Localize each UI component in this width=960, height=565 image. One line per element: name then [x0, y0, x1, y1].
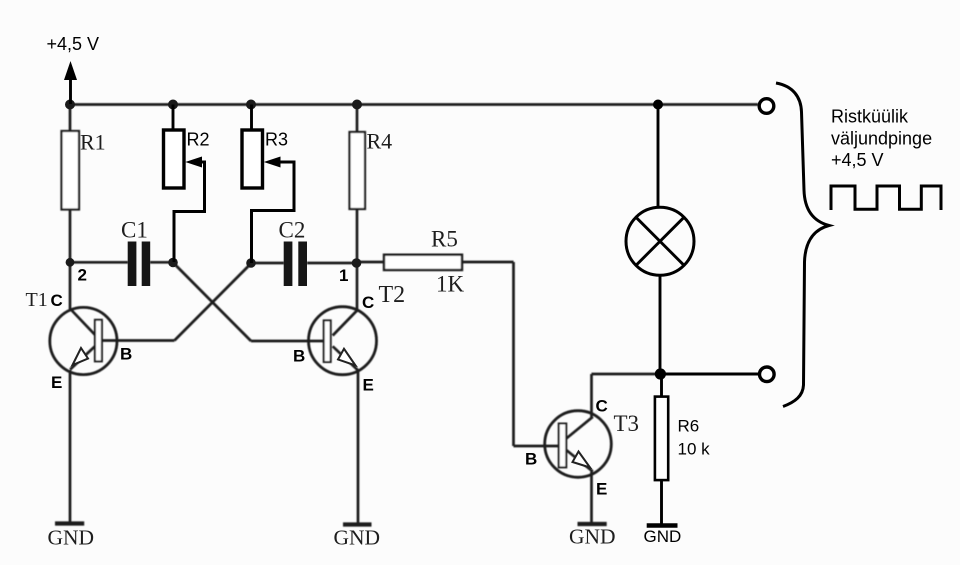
svg-text:R1: R1 [80, 130, 106, 155]
svg-text:C: C [51, 291, 63, 310]
svg-text:B: B [293, 347, 305, 366]
svg-text:E: E [51, 373, 62, 392]
svg-text:C: C [596, 397, 608, 416]
svg-text:B: B [525, 450, 537, 469]
svg-text:GND: GND [48, 526, 95, 550]
svg-text:E: E [596, 480, 607, 499]
svg-text:E: E [363, 376, 374, 395]
svg-text:10 k: 10 k [678, 440, 711, 459]
svg-text:T2: T2 [379, 282, 406, 308]
svg-text:+4,5 V: +4,5 V [47, 34, 100, 54]
svg-text:C: C [362, 293, 374, 312]
svg-text:GND: GND [334, 526, 381, 550]
svg-text:C1: C1 [121, 218, 148, 243]
svg-text:B: B [120, 345, 132, 364]
svg-text:R5: R5 [431, 227, 458, 252]
svg-text:+4,5 V: +4,5 V [831, 150, 884, 170]
svg-text:C2: C2 [279, 218, 306, 243]
svg-text:T1: T1 [26, 289, 48, 311]
svg-text:R2: R2 [187, 130, 210, 150]
svg-text:R3: R3 [265, 130, 288, 150]
svg-text:R4: R4 [367, 129, 393, 154]
svg-text:väljundpinge: väljundpinge [831, 129, 932, 149]
svg-text:T3: T3 [614, 411, 640, 436]
svg-text:GND: GND [569, 525, 616, 549]
svg-text:2: 2 [78, 266, 87, 285]
svg-text:Ristküülik: Ristküülik [831, 107, 909, 127]
svg-text:1K: 1K [436, 272, 465, 297]
svg-text:R6: R6 [678, 417, 700, 436]
svg-text:1: 1 [339, 266, 348, 285]
svg-text:GND: GND [644, 527, 682, 546]
